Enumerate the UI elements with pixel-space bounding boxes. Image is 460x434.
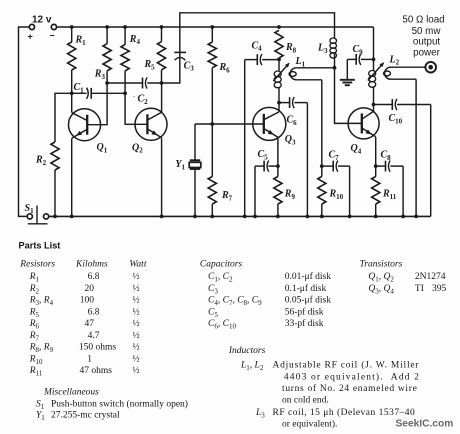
L1 secondary winding bbox=[290, 68, 334, 80]
wire: tank rail A connecting C3 top and L3 top bbox=[180, 13, 335, 53]
resistor R5 bbox=[161, 27, 163, 42]
transistor Q4 bbox=[348, 108, 379, 139]
wire: rail B corner down to C9/L2 node bbox=[373, 27, 375, 59]
svg-text:C6: C6 bbox=[287, 115, 298, 127]
svg-text:R1: R1 bbox=[29, 272, 40, 283]
svg-text:C5: C5 bbox=[258, 149, 269, 161]
svg-text:R5: R5 bbox=[144, 59, 156, 71]
svg-text:½: ½ bbox=[133, 318, 140, 329]
resistor R7 bbox=[211, 124, 213, 177]
svg-text:L1: L1 bbox=[295, 56, 306, 68]
svg-text:Watt: Watt bbox=[129, 260, 146, 270]
svg-text:C3: C3 bbox=[184, 60, 195, 72]
svg-text:C4, C7, C8, C9: C4, C7, C8, C9 bbox=[208, 296, 262, 307]
svg-text:6.8: 6.8 bbox=[88, 307, 100, 317]
capacitor C3 bbox=[174, 51, 186, 53]
svg-text:150 ohms: 150 ohms bbox=[79, 343, 117, 353]
wire: C6 right side down to ground rail bbox=[306, 103, 308, 217]
svg-text:½: ½ bbox=[133, 306, 140, 317]
wire: Q2 collector up to C2 node bbox=[161, 83, 163, 112]
svg-text:RF coil, 15 μh (Delevan 1537–4: RF coil, 15 μh (Delevan 1537–40 bbox=[273, 407, 416, 418]
node dot C9 / L2 / rail corner bbox=[372, 58, 376, 62]
node dot Q4 emitter / C8 / R11 bbox=[374, 164, 378, 168]
node dot R6/R7/Y1/base bbox=[210, 122, 214, 126]
svg-text:Y1: Y1 bbox=[175, 159, 185, 171]
capacitor C8 bbox=[376, 165, 385, 167]
svg-text:56-pf disk: 56-pf disk bbox=[285, 306, 324, 317]
wire: C1 line right segment to R4 bbox=[91, 92, 125, 94]
node dots on rail B bbox=[70, 25, 74, 29]
inductor L3 bbox=[330, 38, 337, 43]
transistor Q2 bbox=[135, 108, 167, 140]
svg-text:Q1, Q2: Q1, Q2 bbox=[368, 272, 394, 283]
svg-text:20: 20 bbox=[85, 284, 95, 294]
wire: base line from Y1 corner to Q3 bar bbox=[195, 123, 264, 125]
wire: C7 right down to ground rail bbox=[349, 166, 351, 216]
svg-text:Kilohms: Kilohms bbox=[75, 260, 108, 270]
switch S1 bbox=[27, 214, 32, 219]
svg-text:R1: R1 bbox=[75, 35, 87, 47]
svg-text:L1, L2: L1, L2 bbox=[240, 360, 264, 371]
node dot R3 / C2 line bbox=[105, 81, 109, 85]
wire: C2 line right segment to C3 bottom corner bbox=[147, 50, 180, 83]
svg-text:Inductors: Inductors bbox=[228, 346, 266, 356]
wire: C5 left side down to ground rail bbox=[254, 166, 256, 216]
svg-text:or equivalent).: or equivalent). bbox=[282, 418, 337, 429]
wire: Q2 emitter down to ground rail bbox=[161, 138, 163, 217]
svg-text:R4: R4 bbox=[129, 34, 141, 46]
svg-text:395: 395 bbox=[432, 284, 447, 294]
svg-text:C3: C3 bbox=[208, 284, 218, 295]
svg-text:L3: L3 bbox=[317, 43, 328, 55]
resistor R2 bbox=[51, 142, 59, 170]
battery terminal - bbox=[51, 24, 56, 29]
svg-text:R7: R7 bbox=[29, 331, 40, 342]
resistor R9 bbox=[277, 166, 279, 176]
wire: Q3 emitter down to C5/R9 node bbox=[277, 138, 279, 167]
wire: Q4 collector vertical bbox=[373, 105, 375, 112]
node dots on ground rail bbox=[53, 215, 57, 219]
transistor Q3 bbox=[253, 107, 286, 140]
svg-text:½: ½ bbox=[133, 295, 140, 306]
node dot Q3 emitter / C5 / R9 bbox=[276, 164, 280, 168]
svg-text:C2: C2 bbox=[138, 94, 149, 106]
svg-text:1: 1 bbox=[87, 354, 92, 364]
svg-text:R7: R7 bbox=[221, 190, 233, 202]
crystal Y1 bbox=[190, 159, 200, 161]
wire: node down to Q4 base bbox=[335, 68, 362, 124]
svg-text:C1, C2: C1, C2 bbox=[208, 272, 233, 283]
wire: C4 left side down to ground rail bbox=[244, 60, 246, 217]
svg-text:Y1: Y1 bbox=[36, 411, 45, 422]
wire: Q4 emitter down to C8/R11 node bbox=[375, 137, 377, 166]
capacitor C4 bbox=[245, 59, 257, 61]
inductor L2 (adjustable) bbox=[373, 59, 375, 71]
resistor R3 bbox=[106, 27, 108, 44]
L2 secondary winding bbox=[385, 67, 425, 79]
node dot Q3 collector / C6 / L1 bbox=[277, 101, 281, 105]
resistor R8 bbox=[275, 30, 283, 58]
svg-text:4403 or equivalent). Add 2: 4403 or equivalent). Add 2 bbox=[284, 371, 419, 382]
svg-text:turns of No. 24 enameled wire: turns of No. 24 enameled wire bbox=[282, 383, 417, 394]
svg-text:27.255-mc crystal: 27.255-mc crystal bbox=[51, 411, 120, 421]
wire: top supply rail B bbox=[56, 26, 373, 28]
transistor Q1 bbox=[71, 93, 73, 112]
wire: L2 secondary bottom down to ground rail bbox=[415, 79, 417, 216]
svg-text:50 mw: 50 mw bbox=[412, 26, 442, 37]
svg-text:Adjustable RF coil (J. W. Mill: Adjustable RF coil (J. W. Miller bbox=[273, 359, 420, 370]
wire: Q1 emitter down to ground rail bbox=[71, 138, 73, 216]
wire: left rail from + terminal down to S1 bbox=[19, 27, 30, 216]
svg-text:C7: C7 bbox=[329, 150, 340, 162]
svg-text:50 Ω load: 50 Ω load bbox=[402, 15, 444, 26]
svg-text:0.1-μf disk: 0.1-μf disk bbox=[285, 283, 327, 294]
wire: C1 line left segment + corner down to R2 bbox=[55, 93, 87, 142]
node dot C1 line / R4 base line bbox=[123, 91, 127, 95]
svg-text:47 ohms: 47 ohms bbox=[80, 366, 113, 376]
wire: L1 secondary bottom down to R10/C7 bbox=[321, 80, 323, 166]
node dot Q1 collector junction bbox=[70, 91, 74, 95]
svg-text:½: ½ bbox=[133, 330, 140, 341]
svg-text:4.7: 4.7 bbox=[88, 331, 100, 341]
svg-text:½: ½ bbox=[133, 283, 140, 294]
svg-text:L3: L3 bbox=[255, 408, 265, 419]
svg-text:R11: R11 bbox=[29, 366, 43, 377]
svg-text:Miscellaneous: Miscellaneous bbox=[43, 388, 99, 398]
svg-text:R8: R8 bbox=[285, 42, 297, 54]
resistor R1 bbox=[71, 27, 73, 42]
output terminal bbox=[425, 62, 436, 73]
svg-text:Q3: Q3 bbox=[285, 134, 296, 146]
svg-text:Resistors: Resistors bbox=[19, 260, 55, 270]
svg-text:output: output bbox=[413, 37, 441, 48]
capacitor C9 bbox=[347, 58, 356, 60]
wire: C2 line left segment bbox=[107, 82, 142, 84]
svg-text:R9: R9 bbox=[284, 188, 296, 200]
svg-text:Transistors: Transistors bbox=[360, 260, 403, 270]
node dot L3 bottom / L1 secondary / Q4 base bbox=[333, 66, 337, 70]
svg-text:R10: R10 bbox=[29, 354, 43, 365]
capacitor C2 bbox=[142, 78, 144, 89]
capacitor C7 bbox=[322, 165, 333, 167]
wire: C8 right side down to ground rail bbox=[402, 166, 404, 216]
svg-text:R6: R6 bbox=[29, 319, 40, 330]
svg-text:TI: TI bbox=[415, 284, 424, 294]
svg-text:R5: R5 bbox=[29, 307, 40, 318]
svg-text:R11: R11 bbox=[382, 188, 397, 200]
svg-text:R2: R2 bbox=[35, 155, 47, 167]
svg-text:S1: S1 bbox=[36, 399, 45, 410]
svg-text:C9: C9 bbox=[353, 44, 364, 56]
svg-text:R3: R3 bbox=[94, 69, 106, 81]
svg-text:0.05-μf disk: 0.05-μf disk bbox=[285, 295, 332, 306]
svg-text:L2: L2 bbox=[389, 54, 400, 66]
svg-text:½: ½ bbox=[133, 365, 140, 376]
svg-text:Q3, Q4: Q3, Q4 bbox=[368, 284, 394, 295]
svg-text:power: power bbox=[413, 48, 440, 59]
svg-text:R10: R10 bbox=[329, 188, 344, 200]
node dot R8/C4/L1 bbox=[277, 58, 281, 62]
wire: collector vertical bbox=[278, 103, 280, 112]
node dot C7/R10 bbox=[320, 164, 324, 168]
svg-text:R8, R9: R8, R9 bbox=[29, 343, 54, 354]
svg-text:47: 47 bbox=[85, 319, 95, 329]
svg-text:R3, R4: R3, R4 bbox=[29, 296, 54, 307]
wire: Y1 top lead bbox=[194, 124, 196, 160]
wire: Y1 bottom lead bbox=[194, 170, 196, 217]
svg-text:Capacitors: Capacitors bbox=[200, 260, 243, 270]
svg-text:2N1274: 2N1274 bbox=[415, 272, 446, 282]
node dot R5 / C2 line / Q2 collector bbox=[160, 81, 164, 85]
svg-text:C5: C5 bbox=[208, 307, 218, 318]
svg-text:12 v: 12 v bbox=[32, 15, 52, 26]
svg-text:R6: R6 bbox=[219, 62, 231, 74]
resistor R6 bbox=[211, 27, 213, 42]
svg-text:R2: R2 bbox=[29, 284, 40, 295]
ground bbox=[346, 59, 348, 79]
battery terminal + bbox=[29, 24, 34, 29]
svg-text:Q2: Q2 bbox=[132, 142, 143, 154]
svg-text:SeekIC.com: SeekIC.com bbox=[396, 418, 454, 429]
svg-text:C1: C1 bbox=[74, 82, 85, 94]
svg-text:Parts List: Parts List bbox=[19, 241, 61, 251]
wire: bottom ground rail bbox=[49, 215, 431, 217]
svg-text:Q4: Q4 bbox=[351, 143, 362, 155]
inductor L1 (adjustable) bbox=[278, 59, 280, 71]
svg-text:0.01-μf disk: 0.01-μf disk bbox=[285, 271, 332, 282]
svg-text:C10: C10 bbox=[389, 113, 403, 125]
svg-text:C4: C4 bbox=[252, 40, 263, 52]
wire: C10 right side down to ground rail bbox=[430, 105, 432, 217]
svg-text:½: ½ bbox=[133, 353, 140, 364]
resistor R11 bbox=[375, 166, 377, 176]
capacitor C10 bbox=[374, 104, 392, 106]
svg-text:½: ½ bbox=[133, 271, 140, 282]
capacitor C6 bbox=[279, 102, 289, 104]
svg-text:Q1: Q1 bbox=[97, 142, 108, 154]
svg-text:C6, C10: C6, C10 bbox=[208, 319, 236, 330]
svg-text:Push-button switch (normally o: Push-button switch (normally open) bbox=[51, 398, 188, 409]
resistor R4 bbox=[124, 27, 126, 45]
svg-text:100: 100 bbox=[80, 296, 95, 306]
svg-text:½: ½ bbox=[133, 342, 140, 353]
capacitor C5 bbox=[268, 165, 278, 167]
svg-text:6.8: 6.8 bbox=[88, 272, 100, 282]
capacitor C1 bbox=[90, 88, 92, 99]
svg-text:on cold end.: on cold end. bbox=[282, 396, 329, 406]
node dot Q4 collector / L2 / C10 bbox=[372, 103, 376, 107]
resistor R10 bbox=[321, 166, 323, 176]
svg-text:−: − bbox=[50, 31, 55, 41]
svg-text:+: + bbox=[28, 32, 33, 42]
svg-text:C8: C8 bbox=[381, 150, 392, 162]
svg-text:33-pf disk: 33-pf disk bbox=[285, 318, 324, 329]
svg-text:S1: S1 bbox=[25, 203, 35, 215]
